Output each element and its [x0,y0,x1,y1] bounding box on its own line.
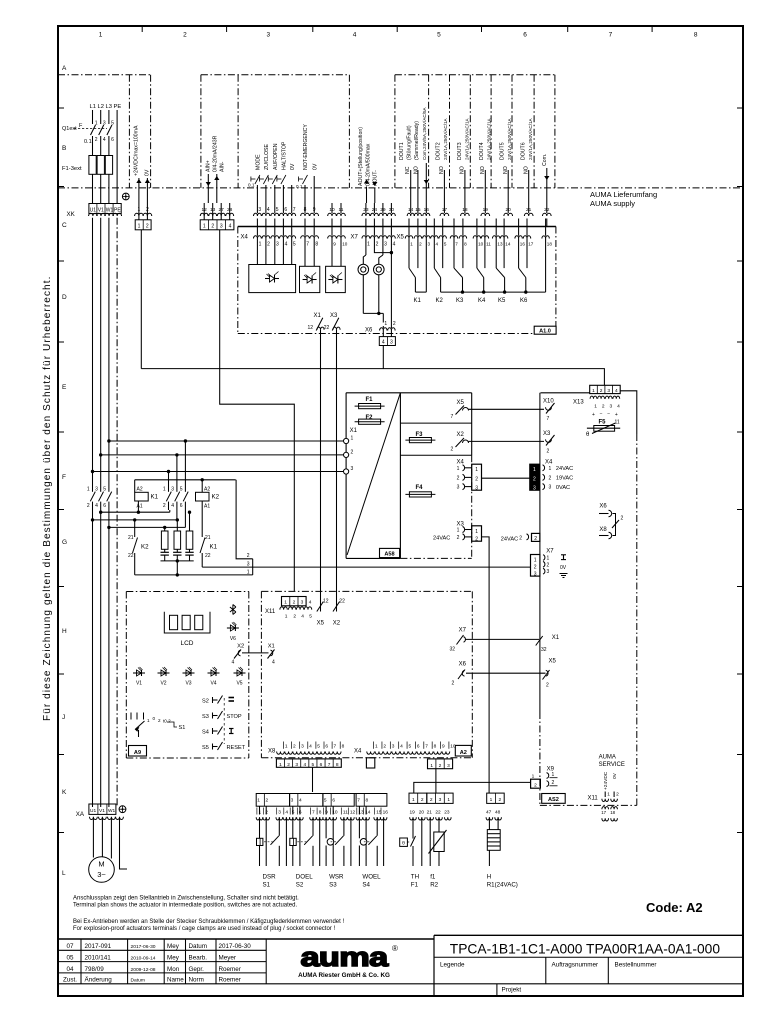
svg-text:S5: S5 [202,745,209,751]
svg-text:8: 8 [434,744,437,750]
wire NOT-EMERGENCY [304,185,306,203]
switch S3 wires [325,806,327,814]
svg-text:1: 1 [284,600,287,606]
RC bottom bus [161,560,194,562]
svg-text:24VAC: 24VAC [556,466,573,472]
svg-text:6: 6 [417,744,420,750]
connector X5 pins [408,219,410,236]
svg-text:X5: X5 [317,621,325,627]
svg-text:2: 2 [600,388,603,394]
terminals 23 24 29 30 arcs [362,213,370,216]
svg-text:2: 2 [293,600,296,606]
svg-text:0: 0 [153,716,156,721]
service boundary bottom [540,804,637,806]
svg-text:7: 7 [451,414,454,420]
cross wire K1-K2 b [93,519,177,521]
switch S4 actuator [360,839,367,846]
connector X4 A2 box pin1 [366,758,374,768]
svg-text:5: 5 [309,613,312,619]
svg-text:22: 22 [205,553,211,559]
svg-text:Bei Ex-Antrieben werden an Ste: Bei Ex-Antrieben werden an Stelle der St… [73,919,344,925]
svg-text:0/4-20mA/500max: 0/4-20mA/500max [365,143,371,186]
switch S4 top boxes [356,794,387,807]
svg-text:1: 1 [375,744,378,750]
svg-text:F5: F5 [599,420,607,426]
svg-text:24VAC: 24VAC [433,536,450,542]
svg-text:17: 17 [528,241,534,246]
relay contact K4 [476,239,478,269]
svg-text:4: 4 [617,404,620,410]
svg-text:6: 6 [523,32,527,39]
svg-text:5: 5 [324,798,327,804]
svg-text:C: C [62,222,67,229]
svg-text:G: G [62,539,67,546]
svg-text:5: 5 [276,207,279,213]
svg-text:V4: V4 [210,681,216,687]
wire X3-22 down [336,330,338,602]
svg-text:3: 3 [258,207,261,213]
svg-text:Mey: Mey [167,955,180,962]
svg-text:2: 2 [146,224,149,230]
connector X3 outer box [472,526,482,541]
svg-text:X5: X5 [457,400,465,406]
terminals 10 11 arcs [328,213,337,216]
svg-text:24V/1A,250V/AC/1A: 24V/1A,250V/AC/1A [507,117,512,160]
svg-text:2: 2 [183,32,187,39]
svg-text:Com.: Com. [542,154,548,166]
svg-text:8: 8 [694,32,698,39]
wire 24VDC down [140,230,142,369]
svg-text:Mon: Mon [167,966,180,973]
wire X8 to switch bus [312,767,314,792]
svg-text:W1: W1 [108,808,116,814]
svg-text:Q1ext: Q1ext [62,126,77,132]
wire X7-1 to T1 [365,239,367,256]
svg-text:4: 4 [272,660,275,666]
wire 1 interlock return [135,574,253,576]
svg-text:3: 3 [266,32,270,39]
svg-text:2: 2 [383,744,386,750]
svg-text:1: 1 [457,528,460,534]
svg-text:0.1: 0.1 [84,139,92,145]
switch S3 actuator [327,839,334,846]
svg-text:3: 3 [301,600,304,606]
svg-text:X8: X8 [599,527,607,533]
contactor K2 poles [168,490,170,493]
svg-text:4: 4 [229,224,232,230]
svg-text:4: 4 [285,809,288,815]
wire V1 down [100,218,102,455]
svg-text:DOUT2: DOUT2 [436,142,442,160]
svg-text:1: 1 [475,529,478,535]
thermoswitch TH wires [412,817,414,838]
svg-text:V5: V5 [236,681,242,687]
wire ZU/CLOSE [265,185,267,203]
svg-text:3: 3 [475,485,478,491]
svg-text:F4: F4 [416,485,424,491]
pin X3-22 slash [332,318,339,331]
svg-text:MODE: MODE [256,154,262,170]
svg-text:10: 10 [478,241,484,246]
svg-text:1: 1 [247,570,250,576]
svg-text:1: 1 [532,774,535,780]
svg-text:3: 3 [95,487,98,493]
svg-text:(Sammel/Ready): (Sammel/Ready) [414,121,420,160]
wire X1-12 down [320,330,322,602]
svg-text:AS2: AS2 [548,797,559,803]
svg-text:24V/1A,250V/AC/1A: 24V/1A,250V/AC/1A [486,117,491,160]
svg-text:7: 7 [547,416,550,422]
block A2 outline [261,590,472,592]
svg-text:8: 8 [315,241,318,247]
svg-text:F1: F1 [366,397,374,403]
svg-text:1: 1 [95,121,98,127]
svg-text:A1: A1 [137,504,143,510]
switch S1 top boxes [256,794,290,807]
svg-text:2: 2 [549,475,552,481]
svg-text:12: 12 [350,809,356,815]
svg-text:05: 05 [66,955,74,962]
heater H wires [488,817,490,829]
svg-text:2: 2 [546,683,549,689]
terminals 14-16 arcs [407,213,414,216]
svg-text:Datum: Datum [131,978,145,984]
connector X7 heater pins [543,555,545,561]
wire MODE [256,185,258,203]
svg-text:2: 2 [475,536,478,542]
svg-text:V6: V6 [230,636,236,642]
svg-text:4: 4 [309,600,312,606]
wire K2 riser 3 [168,472,170,492]
svg-text:04: 04 [66,966,74,973]
svg-text:Änderung: Änderung [85,976,113,984]
svg-text:1: 1 [384,321,387,327]
svg-text:7: 7 [312,809,315,815]
svg-text:HALT/STOP: HALT/STOP [282,141,288,170]
svg-text:K3: K3 [456,298,464,304]
X5 even pin stubs [417,239,419,269]
svg-text:+24VDC/max=100mA: +24VDC/max=100mA [134,125,140,176]
svg-text:1: 1 [257,798,260,804]
svg-text:1: 1 [87,487,90,493]
svg-text:1: 1 [490,797,493,803]
svg-text:K5: K5 [498,298,506,304]
svg-text:4: 4 [103,137,106,143]
svg-text:12: 12 [323,598,329,604]
svg-text:6: 6 [180,503,183,509]
transformer T1 circles [358,264,369,275]
wire AIN to X11 [220,230,295,592]
aux contact K1 wire [201,501,203,537]
svg-text:−: − [600,411,603,417]
svg-text:K2: K2 [212,494,220,501]
svg-text:1: 1 [367,241,370,247]
title block legend row [434,956,743,958]
svg-text:WSR: WSR [329,874,344,881]
wire 3 to heater connector X7 [202,566,530,568]
svg-text:AIN-: AIN- [220,161,226,172]
block A1.0 label [534,326,556,334]
svg-text:2: 2 [393,321,396,327]
svg-text:5: 5 [180,487,183,493]
svg-text:DOUT6: DOUT6 [521,142,527,160]
svg-text:7: 7 [293,207,296,213]
svg-text:1: 1 [351,436,354,442]
svg-text:NOT-EMERGENCY: NOT-EMERGENCY [303,124,309,170]
svg-text:SERVICE: SERVICE [599,762,625,768]
svg-text:9: 9 [442,744,445,750]
wire AOUT- with arrow [374,188,376,203]
connector X11 service pins [604,792,606,798]
svg-text:A: A [62,65,67,72]
svg-text:2: 2 [419,241,422,246]
svg-text:3: 3 [533,485,536,491]
switch S2 pin numbers [289,808,291,815]
wire L1 upper [92,110,94,124]
wire DOUT1 NC [410,170,412,203]
svg-text:1: 1 [163,487,166,493]
svg-text:DOUT4: DOUT4 [479,142,485,160]
wire DOUT6 [528,170,530,203]
svg-text:2: 2 [163,503,166,509]
svg-text:L1: L1 [90,104,96,110]
svg-text:S3: S3 [202,714,209,720]
connector X4 A2 boxes pins 8 9 10 [428,759,453,769]
svg-text:5: 5 [437,32,441,39]
svg-text:2: 2 [534,782,537,788]
wire AIN- with arrow [216,174,218,203]
svg-text:6: 6 [284,207,287,213]
svg-text:2: 2 [533,476,536,482]
svg-text:4: 4 [299,798,302,804]
switch S3 top boxes [323,794,354,807]
svg-text:1: 1 [410,241,413,246]
coil supply bus [135,479,236,481]
svg-text:4: 4 [400,744,403,750]
connector X4 right black box [530,464,539,490]
svg-text:K2: K2 [436,298,444,304]
switch S4 pin numbers [356,808,358,815]
LED V1 [133,672,145,674]
block AS2 label [542,794,566,804]
wire X2 to X1 [242,652,269,654]
svg-text:3: 3 [278,809,281,815]
LCD display [164,612,210,633]
svg-text:Code: A2: Code: A2 [646,900,703,915]
svg-text:Meyer: Meyer [219,955,237,962]
svg-text:2017-091: 2017-091 [85,943,112,950]
connector X11 service mate [602,807,609,810]
title block projekt row [496,984,498,996]
connector X7 pins 1-4 [365,219,367,236]
wire X2-2 to X3 [469,440,545,442]
Q1ext contact L2 [99,125,104,135]
svg-text:K1: K1 [210,544,218,551]
svg-text:NC: NC [405,166,411,174]
svg-text:K4: K4 [478,298,486,304]
svg-text:+24VDC: +24VDC [603,771,609,790]
wire 0V [291,185,293,203]
svg-text:V3: V3 [185,681,191,687]
svg-text:H: H [62,628,67,635]
wire +24VDC with arrow [138,178,140,203]
connector X11 arcs [280,607,287,610]
svg-text:3: 3 [276,241,279,247]
svg-text:AUMA supply: AUMA supply [590,199,635,208]
svg-text:K: K [62,789,67,796]
connector X7 heater box [531,555,540,577]
block A1.0 outline [238,226,556,228]
connector X4 pins 9 10 [331,219,333,236]
svg-text:0V: 0V [560,565,567,571]
heater H boxes [487,793,505,803]
svg-text:AUF/OPEN: AUF/OPEN [273,143,279,170]
svg-text:X6: X6 [459,662,467,668]
svg-text:2: 2 [87,503,90,509]
svg-text:Bearb.: Bearb. [189,955,208,962]
svg-text:DOEL: DOEL [296,874,313,881]
svg-text:X6: X6 [599,504,607,510]
svg-text:X1: X1 [314,313,322,319]
connector X13 boxes [590,385,621,393]
service boundary left vertical [539,393,541,555]
svg-text:V1: V1 [98,208,104,214]
svg-text:2: 2 [211,224,214,230]
svg-text:12: 12 [308,325,314,331]
svg-text:4: 4 [303,762,306,768]
svg-text:L: L [62,870,66,877]
wire K1 coil down [137,501,139,512]
thermistor f1 boxes [427,793,453,803]
pin X1-12 slash [316,318,323,331]
LED V4 [208,672,220,674]
switch symbol HALT/STOP [277,178,282,180]
fuse F1-3ext L2 [97,156,104,175]
svg-text:0V: 0V [290,163,296,170]
relay contact K5 [495,239,497,269]
svg-text:5: 5 [408,744,411,750]
svg-text:S2: S2 [202,699,209,705]
svg-text:X1: X1 [268,644,275,650]
svg-text:5: 5 [312,762,315,768]
terminal strip XA arcs [90,817,98,820]
svg-text:2: 2 [430,797,433,803]
svg-text:Bestellnummer: Bestellnummer [615,962,657,969]
svg-text:4: 4 [353,32,357,39]
svg-text:Projekt: Projekt [502,987,522,994]
wire bus to X6-1 [382,313,384,322]
LED V6 [227,627,239,629]
wire 0V-2 [313,176,315,203]
svg-text:14: 14 [505,241,511,246]
svg-text:Datum: Datum [189,943,208,950]
terminals 8 9 arcs [301,213,310,216]
svg-text:4: 4 [393,241,396,247]
svg-text:2: 2 [498,797,501,803]
svg-text:E: E [62,384,67,391]
svg-text:24V/1A,250V/AC/1A: 24V/1A,250V/AC/1A [443,117,448,160]
svg-text:8: 8 [365,798,368,804]
svg-text:Roemer: Roemer [219,966,241,973]
svg-text:2: 2 [602,404,605,410]
thermistor f1 wires [429,817,431,866]
svg-text:Roemer: Roemer [219,977,241,984]
wire L1 to XA [92,510,94,807]
svg-text:TPCA-1B1-1C1-A000 TPA00R1AA-: TPCA-1B1-1C1-A000 TPA00R1AA-0A1-000 [450,942,721,957]
wire X7-2 jog [374,239,391,253]
svg-text:K2: K2 [141,544,149,551]
connector X13 arcs and pins [590,396,597,399]
optocoupler box 3 [326,266,346,292]
wire X13-1 stub [540,391,594,393]
svg-text:XK: XK [67,211,76,218]
svg-text:Mey: Mey [167,943,180,950]
connector X8 pin numbers top [282,742,284,749]
svg-text:6: 6 [332,798,335,804]
motor M 3~ [89,857,115,883]
cross wire K1-K2 a [101,511,170,513]
connector box 1 2 3 4 AIN [203,203,205,220]
switch S2 wires [292,806,294,814]
svg-text:X7: X7 [351,235,359,241]
svg-text:f1: f1 [430,874,436,881]
Q1ext contact L1 [91,125,96,135]
svg-text:22: 22 [128,553,134,559]
wire L3 to XA [108,510,110,807]
scope boundary AUMA supply line [58,187,743,189]
block A9 label [129,746,147,757]
svg-text:7: 7 [328,762,331,768]
wire PE upper [116,110,118,204]
contactor K2 coil [196,492,210,501]
svg-text:t0.2: t0.2 [163,719,171,724]
svg-text:2: 2 [158,718,161,723]
svg-text:2: 2 [475,476,478,482]
connector X4 pins 7 8 [304,219,306,236]
svg-text:19VAC: 19VAC [556,476,573,482]
relay contact K1 [408,239,410,269]
wire XA W1 to motor [110,819,112,859]
wire K2 coil riser [201,480,203,493]
wire 2-1 link vertical [252,559,254,575]
svg-text:D: D [62,294,67,301]
svg-text:0V: 0V [312,163,318,170]
svg-text:5: 5 [111,121,114,127]
RC drain wire [176,561,178,575]
svg-text:H: H [487,874,491,881]
svg-text:1: 1 [534,558,537,564]
wire DOUT4 [484,170,486,203]
svg-text:1: 1 [533,467,536,473]
svg-text:1: 1 [607,792,610,798]
svg-text:Anschlussplan zeigt den Stella: Anschlussplan zeigt den Stellantrieb in … [73,896,299,902]
aux contact K2 wire [134,520,136,537]
svg-text:A2: A2 [137,487,143,493]
connector X11 boxes [282,597,307,606]
svg-text:6: 6 [103,503,106,509]
earth symbol XK PE [122,193,129,200]
wire AIN+ with arrow [207,174,209,203]
switch S1 arcs [256,817,263,820]
wire T2 bottom [378,275,380,314]
block A9 outline [126,591,249,593]
switch S1 actuator [257,838,263,845]
svg-text:7: 7 [455,241,458,246]
svg-text:X4: X4 [241,235,249,241]
svg-text:5: 5 [103,487,106,493]
earth symbol XA PE [119,806,126,813]
svg-text:3: 3 [534,571,537,577]
